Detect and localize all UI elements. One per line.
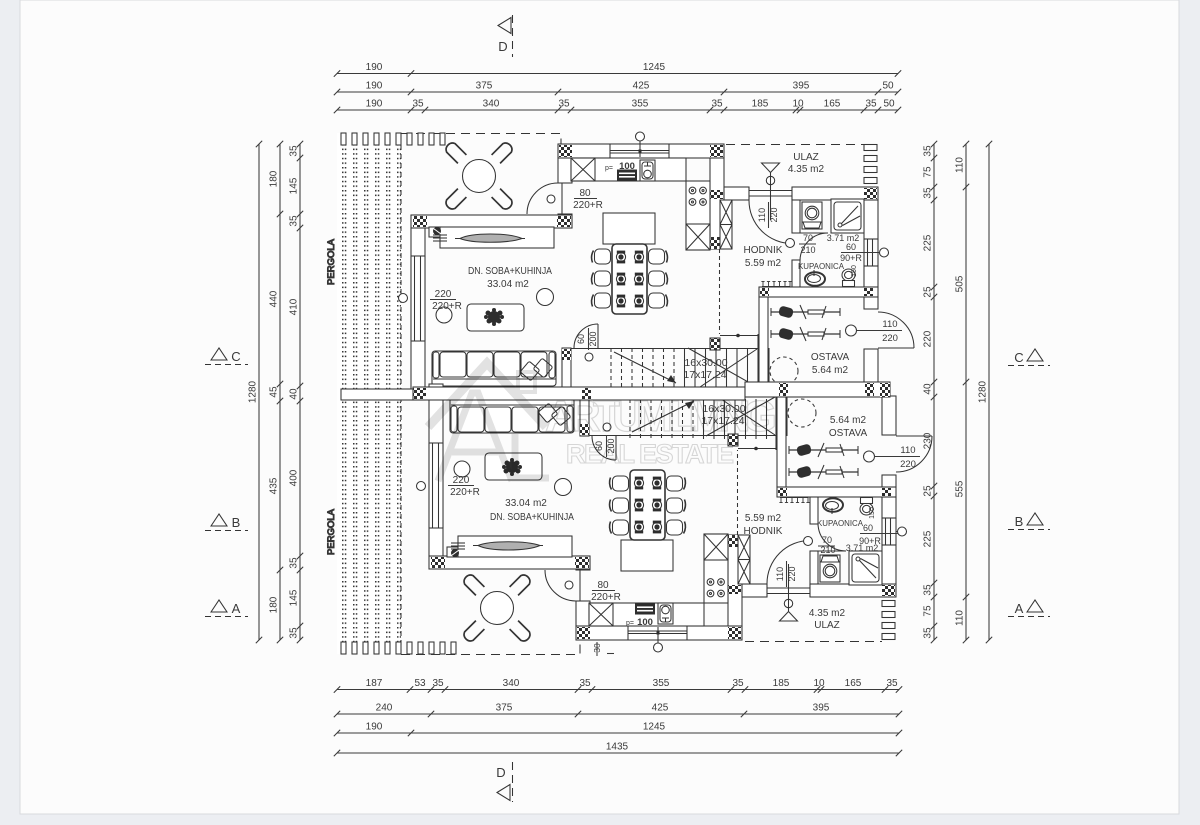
svg-text:33.04 m2: 33.04 m2	[487, 279, 529, 290]
section marker B right	[1008, 513, 1050, 530]
WC	[842, 269, 855, 281]
svg-text:35: 35	[886, 678, 898, 689]
door 80/220 leaf and swing	[561, 183, 563, 214]
svg-text:1280: 1280	[978, 380, 989, 403]
svg-text:110: 110	[900, 445, 915, 456]
ostava right wall with 110 door	[864, 297, 878, 309]
svg-text:555: 555	[955, 480, 966, 497]
pergola posts top row	[341, 133, 445, 145]
svg-text:60: 60	[863, 523, 873, 533]
ostava left wall	[759, 297, 768, 388]
stair flight arrow	[614, 352, 676, 383]
dimension lines right	[923, 141, 993, 643]
svg-text:10: 10	[813, 678, 825, 689]
svg-text:190: 190	[366, 62, 383, 73]
svg-text:185: 185	[752, 99, 769, 110]
svg-text:HODNIK: HODNIK	[744, 526, 783, 537]
svg-text:425: 425	[652, 703, 669, 714]
vent circle	[436, 307, 452, 323]
svg-text:1280: 1280	[248, 380, 259, 403]
pergola right dashed boundary	[400, 145, 402, 654]
svg-text:1435: 1435	[606, 742, 629, 753]
svg-text:DN. SOBA+KUHINJA: DN. SOBA+KUHINJA	[468, 266, 552, 277]
terrace round table	[463, 160, 496, 193]
svg-text:35: 35	[865, 99, 877, 110]
svg-text:p=: p=	[605, 165, 613, 172]
kitchen corner cabinet X	[571, 158, 595, 181]
terrace party bar	[341, 389, 413, 400]
svg-text:425: 425	[633, 81, 650, 92]
living room top exterior wall	[411, 215, 572, 228]
entrance arrow symbol	[762, 163, 780, 173]
svg-text:220: 220	[900, 459, 916, 470]
svg-text:D: D	[498, 39, 507, 54]
svg-text:OSTAVA: OSTAVA	[829, 428, 868, 439]
svg-text:5.59 m2: 5.59 m2	[745, 513, 782, 524]
svg-text:505: 505	[955, 275, 966, 292]
svg-text:17x17.24: 17x17.24	[683, 369, 726, 381]
svg-text:210: 210	[800, 245, 815, 255]
svg-text:440: 440	[269, 290, 280, 307]
svg-text:16x30.00: 16x30.00	[684, 357, 727, 369]
watermark logo chimney	[518, 372, 535, 392]
section marker A right	[1008, 600, 1050, 617]
svg-text:40: 40	[923, 383, 934, 395]
svg-text:35: 35	[558, 99, 570, 110]
building right wall at bathroom with 90 window	[864, 200, 878, 239]
svg-text:150: 150	[869, 507, 876, 519]
svg-text:50: 50	[882, 81, 894, 92]
svg-text:ARTUM LIVING: ARTUM LIVING	[545, 392, 779, 441]
bathroom sink	[805, 272, 825, 286]
svg-text:35: 35	[923, 145, 934, 157]
svg-text:200: 200	[588, 331, 598, 346]
svg-text:90+R: 90+R	[859, 536, 881, 546]
svg-text:355: 355	[653, 678, 670, 689]
svg-text:C: C	[1014, 350, 1023, 365]
svg-text:145: 145	[289, 177, 300, 194]
coffee table with plant	[467, 304, 524, 331]
svg-text:90+R: 90+R	[840, 253, 862, 263]
bicycles in ostava	[771, 305, 840, 319]
svg-text:25: 25	[923, 286, 934, 298]
svg-text:70: 70	[803, 233, 813, 243]
watermark logo letter L	[515, 434, 549, 478]
svg-text:190: 190	[366, 81, 383, 92]
svg-text:180: 180	[269, 596, 280, 613]
svg-text:B: B	[232, 515, 241, 530]
svg-text:220+R: 220+R	[573, 200, 603, 211]
svg-text:60: 60	[576, 334, 586, 344]
svg-text:75: 75	[923, 166, 934, 178]
section marker D top	[498, 15, 513, 57]
dining table	[612, 244, 647, 314]
section marker C left	[205, 348, 248, 365]
svg-text:DN. SOBA+KUHINJA: DN. SOBA+KUHINJA	[490, 512, 574, 523]
svg-text:35: 35	[711, 99, 723, 110]
svg-text:35: 35	[432, 678, 444, 689]
svg-text:145: 145	[289, 589, 300, 606]
stove black	[617, 170, 637, 182]
threshold ticks hodnik	[761, 282, 791, 287]
dimension lines left	[248, 141, 304, 643]
svg-text:410: 410	[289, 298, 300, 315]
sideboard with TV	[429, 227, 441, 237]
svg-text:40: 40	[289, 388, 300, 400]
svg-text:110: 110	[955, 157, 966, 173]
svg-text:B: B	[1015, 514, 1024, 529]
svg-text:35: 35	[289, 145, 300, 157]
kitchen top exterior wall	[558, 144, 724, 158]
bathroom top exterior wall	[792, 187, 878, 200]
installation shaft	[720, 200, 732, 249]
pouf	[537, 289, 554, 306]
hodnik dashed ceiling line	[719, 249, 721, 334]
svg-text:80: 80	[579, 188, 591, 199]
svg-text:ULAZ: ULAZ	[814, 620, 840, 631]
svg-text:220: 220	[769, 207, 779, 222]
svg-text:220: 220	[882, 333, 898, 344]
dining chairs	[595, 249, 611, 264]
svg-text:C: C	[231, 349, 240, 364]
svg-text:A: A	[1015, 601, 1024, 616]
svg-text:225: 225	[923, 234, 934, 251]
svg-text:PERGOLA: PERGOLA	[326, 508, 337, 555]
svg-text:KUPAONICA: KUPAONICA	[798, 261, 844, 271]
svg-text:210: 210	[820, 545, 835, 555]
svg-text:p=: p=	[626, 620, 634, 627]
svg-text:5.59 m2: 5.59 m2	[745, 258, 782, 269]
svg-text:35: 35	[289, 215, 300, 227]
svg-text:240: 240	[376, 703, 393, 714]
svg-text:110: 110	[882, 319, 897, 330]
stair treads unit2	[630, 399, 767, 439]
svg-text:165: 165	[845, 678, 862, 689]
svg-text:10: 10	[792, 99, 804, 110]
svg-text:375: 375	[496, 703, 513, 714]
svg-text:OSTAVA: OSTAVA	[811, 352, 850, 363]
svg-text:225: 225	[923, 530, 934, 547]
pergola dotted paving field	[337, 133, 401, 654]
svg-text:35: 35	[289, 627, 300, 639]
svg-text:A: A	[232, 601, 241, 616]
svg-text:35: 35	[923, 187, 934, 199]
sofa	[432, 351, 556, 386]
window 220 in left wall	[399, 256, 426, 341]
section marker B left	[205, 514, 248, 531]
svg-text:110: 110	[757, 208, 767, 222]
svg-text:180: 180	[269, 170, 280, 187]
bathroom left wall with 70 door	[792, 200, 800, 233]
kitchen island	[603, 213, 655, 244]
svg-text:355: 355	[632, 99, 649, 110]
dimension lines bottom	[334, 678, 902, 756]
svg-text:KUPAONICA: KUPAONICA	[817, 518, 863, 528]
svg-text:165: 165	[824, 99, 841, 110]
svg-text:ULAZ: ULAZ	[793, 152, 819, 163]
svg-text:220: 220	[787, 566, 797, 581]
svg-text:REAL ESTATE: REAL ESTATE	[566, 439, 738, 469]
dimension lines top	[334, 62, 901, 113]
svg-text:220: 220	[453, 475, 470, 486]
svg-text:1245: 1245	[643, 62, 666, 73]
svg-text:D: D	[496, 765, 505, 780]
svg-text:340: 340	[503, 678, 520, 689]
section marker C right	[1008, 349, 1050, 366]
svg-text:435: 435	[269, 477, 280, 494]
stair treads unit1	[611, 348, 748, 388]
kitchen window in top wall	[610, 132, 669, 158]
svg-text:4.35 m2: 4.35 m2	[809, 608, 846, 619]
stair door 60/200	[597, 324, 599, 348]
washing machine	[802, 202, 822, 229]
window leader circle	[880, 248, 889, 257]
party wall between units	[413, 387, 745, 400]
svg-text:220+R: 220+R	[432, 301, 462, 312]
unit 2 mirrored geometry	[417, 384, 933, 652]
svg-text:395: 395	[793, 81, 810, 92]
svg-text:110: 110	[775, 567, 785, 581]
ULAZ bottom dashed boundary	[745, 641, 882, 643]
svg-text:220+R: 220+R	[591, 592, 621, 603]
svg-text:45: 45	[269, 386, 280, 398]
section marker A left	[205, 600, 248, 617]
svg-text:185: 185	[773, 678, 790, 689]
watermark logo house roof	[428, 363, 549, 481]
svg-text:25: 25	[923, 485, 934, 497]
svg-text:35: 35	[579, 678, 591, 689]
kitchen side counter with burners	[686, 181, 710, 250]
svg-text:HODNIK: HODNIK	[744, 245, 783, 256]
room and door labels	[430, 152, 920, 656]
svg-text:220+R: 220+R	[450, 487, 480, 498]
svg-text:60: 60	[846, 242, 856, 252]
svg-text:150: 150	[851, 265, 858, 277]
stair left wall	[562, 348, 571, 388]
svg-text:PERGOLA: PERGOLA	[326, 238, 337, 285]
wall kitchen/hodnik with door 110/220	[724, 187, 749, 200]
watermark logo letter A	[438, 393, 512, 481]
svg-text:100: 100	[619, 161, 635, 172]
svg-text:70: 70	[822, 535, 832, 545]
svg-text:187: 187	[366, 678, 383, 689]
svg-text:1245: 1245	[643, 722, 666, 733]
stair winder diagonals	[688, 348, 757, 387]
svg-text:35: 35	[923, 627, 934, 639]
ULAZ top dashed boundary	[726, 144, 864, 146]
svg-text:100: 100	[637, 617, 653, 628]
terrace bottom dashed boundary	[401, 643, 580, 655]
svg-text:75: 75	[923, 605, 934, 617]
svg-text:340: 340	[483, 99, 500, 110]
ULAZ slat fence	[864, 145, 877, 151]
svg-text:50: 50	[883, 99, 895, 110]
svg-text:190: 190	[366, 99, 383, 110]
svg-text:33.04 m2: 33.04 m2	[505, 498, 547, 509]
svg-text:35: 35	[412, 99, 424, 110]
stair treads	[571, 348, 758, 350]
section marker D bottom	[496, 762, 512, 802]
kitchen sink	[640, 160, 655, 181]
shower	[831, 199, 864, 233]
svg-text:5.64 m2: 5.64 m2	[830, 415, 867, 426]
svg-text:400: 400	[289, 469, 300, 486]
wall bathroom/ostava	[759, 287, 878, 297]
terrace top dashed boundary	[401, 134, 561, 146]
svg-text:5.64 m2: 5.64 m2	[812, 365, 849, 376]
living room left exterior wall	[411, 228, 425, 400]
svg-text:110: 110	[955, 610, 966, 626]
svg-text:35: 35	[732, 678, 744, 689]
wall between kitchen and terrace (80 door)	[558, 158, 572, 183]
svg-text:35: 35	[289, 557, 300, 569]
kitchen counter top	[571, 158, 686, 181]
svg-text:220: 220	[435, 289, 452, 300]
svg-text:395: 395	[813, 703, 830, 714]
storage dashed circle	[770, 357, 798, 385]
kitchen right wall	[710, 158, 724, 249]
svg-text:35: 35	[923, 584, 934, 596]
pergola posts bottom row	[341, 642, 456, 654]
svg-text:220: 220	[923, 330, 934, 347]
svg-text:53: 53	[414, 678, 426, 689]
svg-text:190: 190	[366, 722, 383, 733]
svg-text:4.35 m2: 4.35 m2	[788, 164, 825, 175]
svg-text:375: 375	[476, 81, 493, 92]
svg-text:80: 80	[597, 580, 609, 591]
stair landing	[757, 334, 759, 388]
